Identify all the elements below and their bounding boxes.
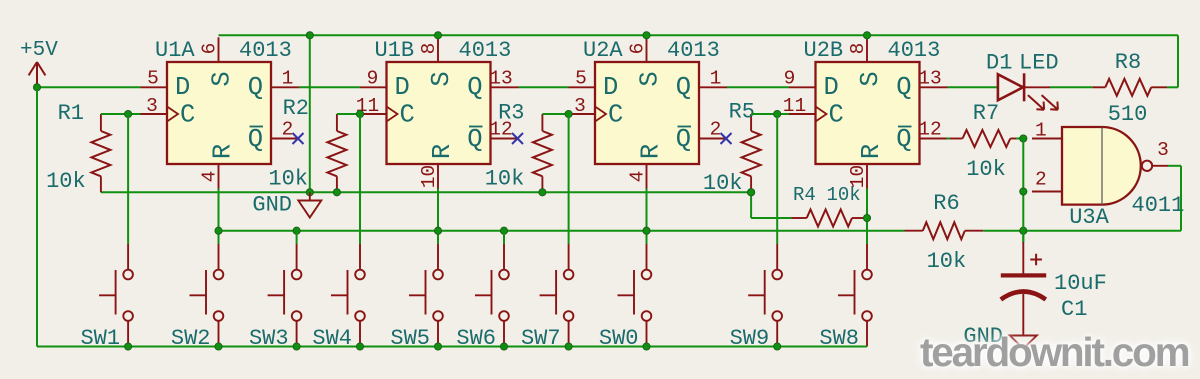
ground symbol at GND bus xyxy=(298,192,321,217)
watermark teardownit.com xyxy=(920,332,1188,373)
U1B no-connect X on pin 12 xyxy=(512,133,523,144)
svg-text:D: D xyxy=(824,73,839,102)
U1A pin D stub xyxy=(141,86,168,88)
svg-text:9: 9 xyxy=(784,68,796,90)
svg-text:2: 2 xyxy=(710,119,722,141)
wire - R7 to NAND pin 1 xyxy=(1016,138,1023,140)
svg-text:Q: Q xyxy=(896,73,911,102)
svg-text:10uF: 10uF xyxy=(1054,271,1107,296)
wire - U1A Q to U1B D xyxy=(299,86,360,88)
U1B pin R stub xyxy=(437,164,439,189)
wire - C junction down to switch xyxy=(359,114,361,244)
junction R5 bottom on GND bus xyxy=(748,189,755,196)
junction C-net U1B xyxy=(356,110,363,117)
svg-text:1: 1 xyxy=(1035,120,1047,142)
junction GND bus/vertical xyxy=(306,189,313,196)
svg-text:S: S xyxy=(427,71,456,86)
svg-text:C1: C1 xyxy=(1061,297,1087,322)
wire - R5 top to C junction xyxy=(751,113,789,115)
svg-text:U2A: U2A xyxy=(583,38,623,63)
junction bottom bus SW4 xyxy=(356,343,363,350)
svg-text:10k: 10k xyxy=(268,167,308,192)
junction on rail above U1B xyxy=(434,32,441,39)
svg-text:Q: Q xyxy=(676,125,691,154)
switch SW1 xyxy=(99,244,133,347)
U2A no-connect X on pin 2 xyxy=(721,133,732,144)
svg-text:10k: 10k xyxy=(966,157,1006,182)
svg-text:LED: LED xyxy=(1019,51,1059,76)
junction R4 right at U2B R column xyxy=(863,214,870,221)
resistor R3 10k pulldown xyxy=(541,114,543,131)
wire - R3 top to C junction xyxy=(542,113,568,115)
svg-text:U2B: U2B xyxy=(804,38,844,63)
svg-text:12: 12 xyxy=(918,119,941,141)
svg-text:U1A: U1A xyxy=(155,38,195,63)
U1B clock triangle xyxy=(387,107,398,122)
svg-text:R: R xyxy=(857,144,886,159)
wire - R2 top to C junction xyxy=(337,113,360,115)
wire - reset bus right part to NAND feedback xyxy=(983,230,1181,232)
svg-text:10k: 10k xyxy=(703,171,743,196)
svg-text:S: S xyxy=(636,71,665,86)
junction on rail above U2B xyxy=(863,32,870,39)
junction bottom bus SW9 xyxy=(774,343,781,350)
svg-text:R1: R1 xyxy=(58,101,84,126)
junction NAND pin 2 node xyxy=(1020,188,1027,195)
junction bottom bus SW7 xyxy=(565,343,572,350)
junction bottom bus SW3 xyxy=(293,343,300,350)
U3A pin 3 stub xyxy=(1152,165,1168,167)
switch SW6 xyxy=(475,244,509,347)
svg-text:5: 5 xyxy=(147,68,159,90)
svg-text:Q: Q xyxy=(676,73,691,102)
U2A pin Q stub xyxy=(699,86,727,88)
switch SW7 xyxy=(540,244,574,347)
U1B pin S stub xyxy=(437,37,439,62)
svg-text:3: 3 xyxy=(146,95,158,117)
resistor R7 10k xyxy=(950,138,963,140)
svg-text:R: R xyxy=(637,144,666,159)
wire - U2A Q to U2B D xyxy=(727,86,789,88)
svg-text:C: C xyxy=(180,101,195,130)
svg-text:4011: 4011 xyxy=(1132,193,1185,218)
wire - R1 top to C junction xyxy=(101,113,141,115)
U1A pin Q stub xyxy=(271,86,299,88)
switch SW4 xyxy=(331,244,365,347)
U2B pin Q stub xyxy=(920,86,948,88)
flip-flop U2B body xyxy=(816,62,920,164)
wire - U1B Q to U2A D xyxy=(519,86,569,88)
wire - U2A R pin down to reset bus xyxy=(646,189,648,245)
wire - U1B R pin down to reset bus xyxy=(437,189,439,245)
svg-text:C: C xyxy=(608,101,623,130)
svg-text:C: C xyxy=(400,101,415,130)
switch SW8 xyxy=(838,244,872,347)
svg-text:C: C xyxy=(829,101,844,130)
svg-text:U3A: U3A xyxy=(1069,205,1109,230)
wire - +5V column down to bottom bus xyxy=(36,87,38,346)
svg-text:10k: 10k xyxy=(927,249,967,274)
U1A pin S stub xyxy=(218,37,220,62)
svg-text:10k: 10k xyxy=(46,169,86,194)
resistor R2 10k pulldown xyxy=(336,114,338,131)
junction reset bus SW3 xyxy=(293,227,300,234)
U2B pin R stub xyxy=(866,164,868,189)
wire - U1A R pin down to reset bus xyxy=(218,189,220,245)
svg-text:10k: 10k xyxy=(485,167,525,192)
wire - NAND input column xyxy=(1022,139,1024,243)
U1B pin Qbar stub xyxy=(491,138,518,140)
wire - C junction down to switch xyxy=(776,114,778,244)
svg-text:3: 3 xyxy=(1157,139,1169,161)
svg-text:4013: 4013 xyxy=(239,38,292,63)
svg-text:13: 13 xyxy=(918,68,941,90)
U2A clock triangle xyxy=(595,107,606,122)
flip-flop U1A body xyxy=(167,62,271,164)
U1A pin Qbar stub xyxy=(271,138,298,140)
junction reset bus SW6 xyxy=(500,227,507,234)
resistor R8 510 xyxy=(1093,86,1106,88)
switch SW2 xyxy=(190,244,224,347)
svg-text:6: 6 xyxy=(199,43,221,55)
wire - rail right corner down to R8 xyxy=(1177,35,1179,87)
junction rail/vertical xyxy=(306,32,313,39)
svg-text:4013: 4013 xyxy=(888,38,941,63)
junction reset bus at C1 xyxy=(1020,227,1027,234)
U1B pin C stub xyxy=(360,113,387,115)
wire - U2B R pin down to reset bus xyxy=(866,189,868,245)
svg-text:R7: R7 xyxy=(973,101,999,126)
U2A pin S stub xyxy=(646,37,648,62)
flip-flop U1B body xyxy=(387,62,491,164)
svg-text:+5V: +5V xyxy=(20,39,58,62)
junction C-net U2B xyxy=(774,110,781,117)
svg-text:R6: R6 xyxy=(933,191,959,216)
svg-text:D: D xyxy=(175,73,190,102)
U1B pin D stub xyxy=(360,86,387,88)
svg-text:D: D xyxy=(395,73,410,102)
U3A pin 1 stub xyxy=(1032,138,1062,140)
U1B pin Q stub xyxy=(491,86,519,88)
switch SW0 xyxy=(618,244,652,347)
U1A pin R stub xyxy=(218,164,220,189)
wire - U2B Qbar to R7 xyxy=(947,138,951,140)
capacitor C1 10uF xyxy=(1001,242,1046,336)
svg-text:9: 9 xyxy=(367,68,379,90)
LED D1 xyxy=(998,73,1058,109)
resistor R4 10k xyxy=(792,217,807,219)
svg-text:3: 3 xyxy=(574,95,586,117)
svg-text:R3: R3 xyxy=(498,101,524,126)
U2A pin C stub xyxy=(569,113,596,115)
junction bottom bus SW2 xyxy=(215,343,222,350)
wire - reset node down to C1 xyxy=(1022,231,1024,242)
+5V power symbol xyxy=(29,62,46,87)
wire - reset bus left part xyxy=(219,230,905,232)
svg-text:Q: Q xyxy=(467,125,482,154)
wire - LED cathode to R8 xyxy=(1050,86,1093,88)
wire - SW3 drop from reset bus xyxy=(296,231,298,244)
junction at +5V xyxy=(33,84,40,91)
wire - R8 to rail corner xyxy=(1167,86,1178,88)
U2A pin R stub xyxy=(646,164,648,189)
svg-text:4013: 4013 xyxy=(459,38,512,63)
svg-text:4: 4 xyxy=(199,171,221,183)
U2B clock triangle xyxy=(816,107,827,122)
svg-text:U1B: U1B xyxy=(375,38,415,63)
U1A no-connect X on pin 2 xyxy=(293,133,304,144)
wire - U2B Q to LED anode xyxy=(948,86,998,88)
U2A pin D stub xyxy=(569,86,596,88)
svg-text:R2: R2 xyxy=(283,96,309,121)
switch SW5 xyxy=(409,244,443,347)
svg-text:R5: R5 xyxy=(729,100,755,125)
svg-text:10k: 10k xyxy=(827,184,861,206)
switch SW9 xyxy=(748,244,782,347)
wire - SW6 drop from reset bus xyxy=(503,231,505,244)
svg-text:10: 10 xyxy=(418,165,440,188)
svg-text:R: R xyxy=(209,144,238,159)
U3A inner line xyxy=(1101,127,1103,205)
svg-text:1: 1 xyxy=(282,68,294,90)
wire - GND bus corner to R4 xyxy=(750,192,752,218)
wire - C junction down to switch xyxy=(568,114,570,244)
svg-text:4: 4 xyxy=(627,171,649,183)
U3A pin 2 stub xyxy=(1032,191,1062,193)
junction R5 bottom / GND bus end xyxy=(748,189,755,196)
resistor R1 10k pulldown xyxy=(100,114,102,131)
wire - C junction down to switch xyxy=(127,114,129,244)
junction NAND pin 1 node xyxy=(1020,135,1027,142)
svg-text:8: 8 xyxy=(847,43,869,55)
U1A clock triangle xyxy=(167,107,178,122)
svg-text:4013: 4013 xyxy=(667,38,720,63)
junction reset bus at U1A R xyxy=(215,227,222,234)
junction bottom bus SW6 xyxy=(500,343,507,350)
svg-text:D1: D1 xyxy=(986,51,1012,76)
U1A pin C stub xyxy=(141,113,168,115)
U2B pin C stub xyxy=(789,113,816,115)
resistor R5 10k pulldown xyxy=(750,114,752,131)
wire - GND bus horizontal xyxy=(101,191,751,193)
junction bottom bus SW0 xyxy=(643,343,650,350)
svg-text:13: 13 xyxy=(489,68,512,90)
junction reset bus at U1B R xyxy=(434,227,441,234)
U2B pin S stub xyxy=(866,37,868,62)
junction R2 bottom on GND bus xyxy=(333,189,340,196)
svg-text:510: 510 xyxy=(1108,102,1148,127)
U3A output bubble xyxy=(1142,161,1152,171)
svg-text:S: S xyxy=(856,71,885,86)
svg-text:Q: Q xyxy=(896,125,911,154)
svg-text:GND: GND xyxy=(252,193,292,218)
svg-text:Q: Q xyxy=(248,125,263,154)
U2B pin D stub xyxy=(789,86,816,88)
junction C-net U2A xyxy=(565,110,572,117)
svg-text:S: S xyxy=(208,71,237,86)
svg-text:8: 8 xyxy=(418,43,440,55)
svg-text:1: 1 xyxy=(710,68,722,90)
svg-text:R: R xyxy=(428,144,457,159)
resistor R6 10k xyxy=(905,230,923,232)
junction reset bus at U2A R xyxy=(643,227,650,234)
junction bottom bus SW5 xyxy=(434,343,441,350)
NAND gate U3A body xyxy=(1062,127,1141,205)
flip-flop U2A body xyxy=(595,62,699,164)
svg-text:D: D xyxy=(603,73,618,102)
svg-text:R8: R8 xyxy=(1115,50,1141,75)
wire - +5V to U1A pin D xyxy=(37,86,141,88)
wire - NAND output feedback down xyxy=(1168,165,1181,167)
svg-text:2: 2 xyxy=(1035,169,1047,191)
U2B pin Qbar stub xyxy=(920,138,947,140)
junction bottom bus SW1 xyxy=(125,343,132,350)
svg-text:R4: R4 xyxy=(793,184,816,206)
U2A pin Qbar stub xyxy=(699,138,726,140)
ground symbol at C1 xyxy=(1010,336,1037,349)
svg-text:6: 6 xyxy=(627,43,649,55)
wire - bottom +5V bus xyxy=(37,346,867,348)
switch SW3 xyxy=(268,244,302,347)
junction on rail above U2A xyxy=(643,32,650,39)
junction R3 bottom on GND bus xyxy=(539,189,546,196)
wire - vertical S rail to GND bus xyxy=(309,35,311,192)
junction C-net U1A xyxy=(125,110,132,117)
svg-text:2: 2 xyxy=(282,119,294,141)
svg-text:Q: Q xyxy=(248,73,263,102)
svg-text:5: 5 xyxy=(575,68,587,90)
svg-text:Q: Q xyxy=(467,73,482,102)
wire - top S rail xyxy=(219,34,1179,36)
